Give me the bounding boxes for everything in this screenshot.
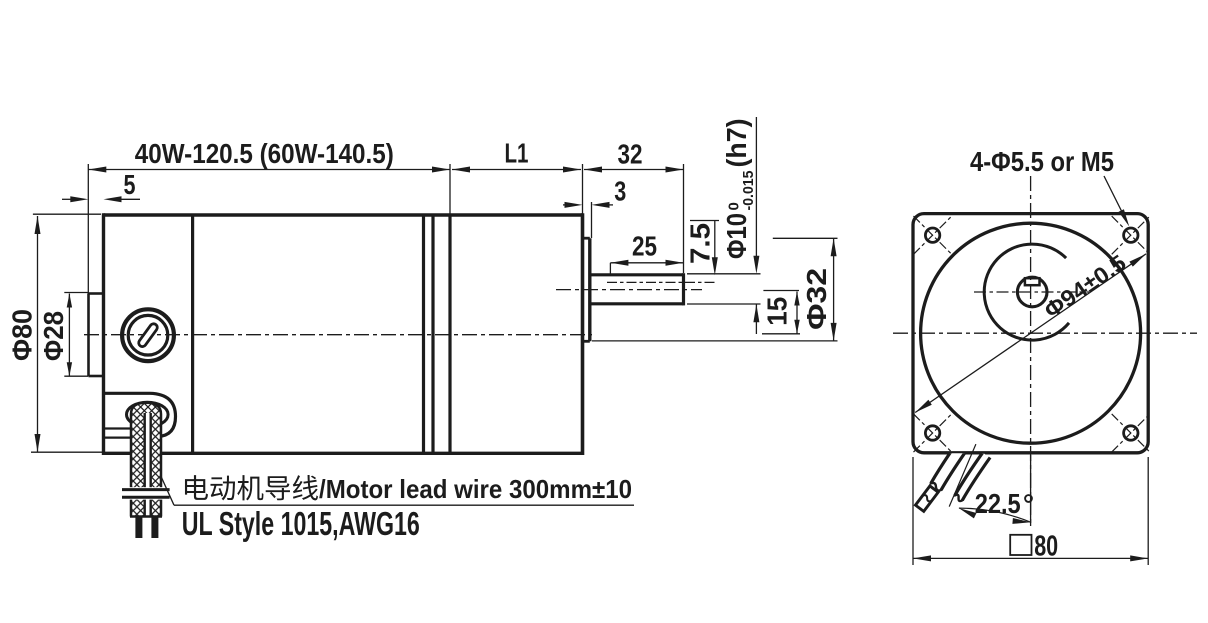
- svg-text:Φ80: Φ80: [6, 309, 37, 361]
- svg-text:(h7): (h7): [721, 119, 752, 168]
- svg-text:/Motor lead wire 300mm±10: /Motor lead wire 300mm±10: [319, 474, 632, 504]
- svg-text:7.5: 7.5: [685, 223, 716, 264]
- svg-text:UL Style 1015,AWG16: UL Style 1015,AWG16: [182, 506, 420, 543]
- svg-text:40W-120.5 (60W-140.5): 40W-120.5 (60W-140.5): [135, 138, 394, 169]
- svg-text:L1: L1: [505, 138, 529, 169]
- svg-text:4-Φ5.5 or M5: 4-Φ5.5 or M5: [970, 146, 1114, 177]
- svg-text:5: 5: [124, 169, 136, 200]
- svg-text:Φ28: Φ28: [38, 311, 69, 361]
- svg-text:-0.015: -0.015: [740, 171, 757, 211]
- svg-text:15: 15: [761, 297, 792, 326]
- svg-text:Φ32: Φ32: [801, 268, 832, 330]
- svg-text:25: 25: [632, 231, 657, 262]
- svg-text:Φ10: Φ10: [721, 213, 752, 259]
- svg-text:80: 80: [1034, 531, 1058, 563]
- svg-text:22.5: 22.5: [975, 488, 1021, 519]
- svg-text:3: 3: [614, 176, 626, 207]
- svg-text:32: 32: [618, 139, 643, 170]
